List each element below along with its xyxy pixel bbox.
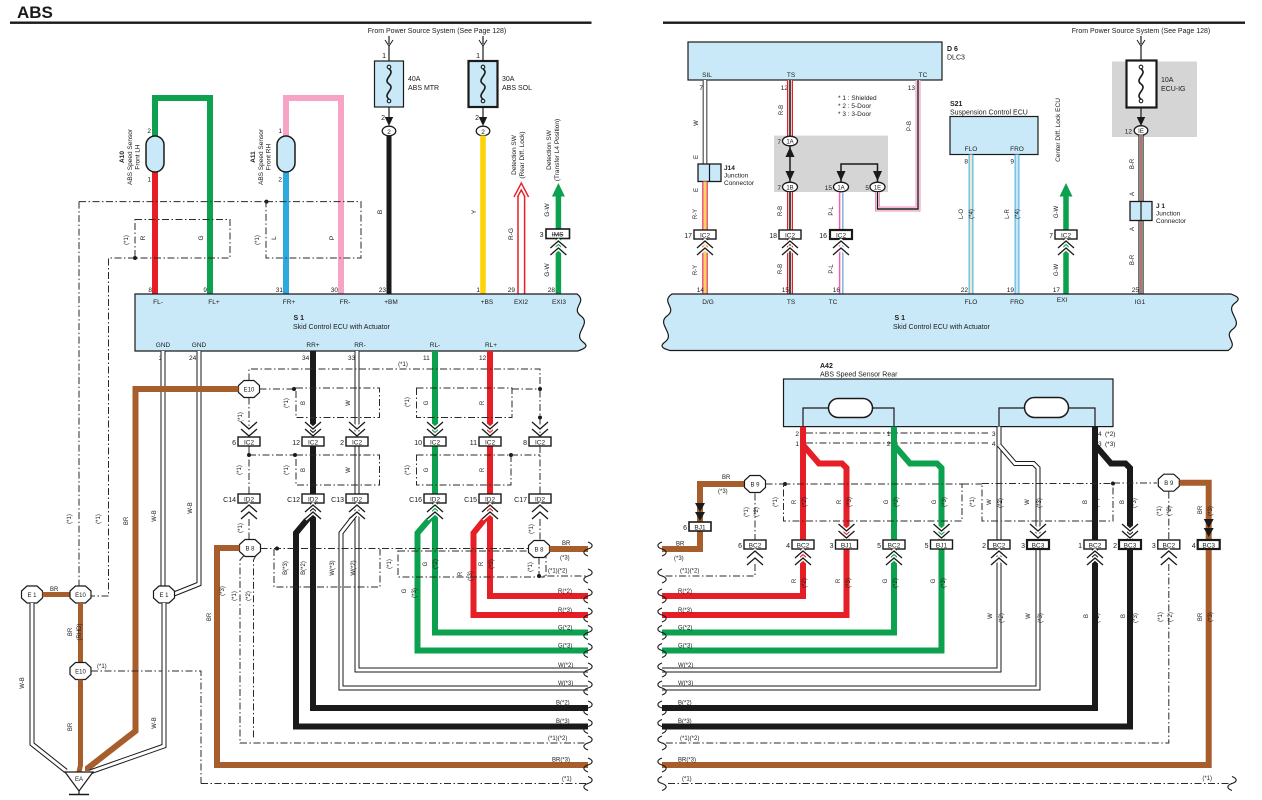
svg-text:G-W: G-W	[1054, 263, 1060, 276]
svg-text:8: 8	[964, 159, 968, 166]
svg-text:BR(*3): BR(*3)	[678, 758, 696, 764]
connector circle IE	[1125, 126, 1148, 136]
svg-text:B: B	[301, 401, 307, 405]
svg-text:R(*3): R(*3)	[678, 608, 692, 614]
svg-text:IC2: IC2	[535, 440, 546, 447]
svg-text:G(*2): G(*2)	[678, 626, 692, 632]
ECU left terminals bottom	[156, 342, 497, 349]
shield node dot A11	[265, 200, 269, 204]
svg-text:S 1: S 1	[895, 315, 906, 322]
svg-text:(*3): (*3)	[1037, 498, 1043, 508]
svg-text:BC3: BC3	[1124, 543, 1137, 550]
svg-text:BR: BR	[1198, 505, 1204, 514]
sensor A42 right element body	[1025, 398, 1069, 418]
svg-text:1E: 1E	[874, 186, 881, 192]
connector row BC2/BJ1/BC3	[738, 540, 766, 550]
detection SW EXI2 arrow R-G	[514, 183, 529, 295]
sensor A11 body	[277, 136, 295, 172]
svg-text:ABS Speed Sensor Rear: ABS Speed Sensor Rear	[820, 372, 898, 379]
svg-text:B: B	[1084, 614, 1090, 618]
svg-text:7: 7	[777, 139, 781, 146]
svg-text:(*1): (*1)	[97, 664, 107, 670]
shield box rear W/B	[982, 484, 1113, 522]
svg-text:(*3): (*3)	[846, 578, 852, 588]
shield box row1 G/R	[417, 388, 513, 418]
svg-text:TC: TC	[919, 72, 928, 79]
svg-text:R: R	[480, 467, 486, 472]
svg-text:(*3): (*3)	[220, 586, 226, 596]
svg-text:From Power Source System (See: From Power Source System (See Page 128)	[1072, 28, 1211, 35]
svg-text:(*1)(*2): (*1)(*2)	[680, 736, 699, 742]
svg-text:4: 4	[1192, 543, 1196, 550]
svg-text:IC2: IC2	[308, 440, 319, 447]
connector row ID2	[223, 494, 260, 504]
wire RL- branch to G(*3)	[418, 515, 589, 651]
chevrons below IMS	[550, 241, 566, 255]
fuse SOL lower lead + pin 2	[475, 107, 487, 126]
svg-text:34: 34	[302, 355, 310, 362]
svg-text:Front LH: Front LH	[135, 144, 142, 170]
wire TS R-B upper	[787, 80, 793, 137]
svg-text:L: L	[271, 236, 278, 240]
ECU left terminals top	[153, 299, 566, 306]
svg-text:A42: A42	[820, 363, 833, 370]
wire R-Y SIL to ECU	[702, 182, 707, 296]
svg-text:(*1)(*2): (*1)(*2)	[680, 569, 699, 575]
svg-text:1A: 1A	[786, 140, 793, 146]
wire BR from B8 left	[217, 548, 588, 765]
svg-text:2: 2	[147, 128, 151, 135]
svg-text:B: B	[1120, 500, 1126, 504]
svg-text:W-B: W-B	[20, 677, 26, 689]
svg-text:BJ1: BJ1	[694, 525, 706, 532]
svg-text:G: G	[424, 467, 430, 472]
shield dash pin rows	[806, 432, 988, 434]
svg-text:1A: 1A	[837, 186, 844, 192]
svg-text:(*1): (*1)	[67, 514, 73, 524]
svg-text:E: E	[694, 155, 700, 159]
svg-text:1: 1	[382, 53, 386, 60]
wire rear W to W(*2)	[662, 427, 999, 670]
svg-text:RR-: RR-	[354, 342, 366, 349]
svg-text:ABS Speed Sensor: ABS Speed Sensor	[127, 128, 134, 185]
A42 pin numbers	[795, 431, 1115, 448]
right row labels at page break	[678, 569, 699, 783]
jumper 1A to 1E	[837, 164, 883, 182]
svg-text:Detection SW: Detection SW	[546, 129, 553, 170]
svg-text:R-B: R-B	[779, 105, 785, 115]
svg-text:W: W	[694, 120, 700, 126]
svg-text:R-B: R-B	[778, 264, 784, 274]
svg-text:W(*2): W(*2)	[351, 560, 357, 575]
shield dash 3BC2 to (*1)(*2) row	[662, 564, 1169, 743]
svg-text:(*1): (*1)	[232, 591, 238, 601]
svg-text:(*2): (*2)	[433, 559, 439, 569]
svg-text:(Rear Diff. Lock): (Rear Diff. Lock)	[519, 131, 526, 178]
shield dash below B8 left	[240, 556, 588, 744]
svg-text:B 8: B 8	[245, 547, 255, 553]
svg-text:SIL: SIL	[702, 72, 712, 79]
svg-text:FLO: FLO	[965, 146, 978, 153]
svg-text:(*1): (*1)	[405, 465, 411, 475]
svg-text:IMS: IMS	[552, 232, 564, 239]
svg-text:(*1): (*1)	[284, 398, 290, 408]
shield box row3 B/W	[274, 549, 380, 587]
svg-text:(*1)(*2): (*1)(*2)	[548, 569, 567, 575]
svg-text:B(*3): B(*3)	[556, 719, 570, 725]
svg-text:Front RH: Front RH	[266, 144, 273, 171]
wire BR E10 to EA	[79, 680, 81, 773]
svg-text:ABS: ABS	[17, 3, 53, 22]
svg-text:R: R	[480, 400, 486, 405]
svg-text:(*2): (*2)	[1168, 612, 1174, 622]
svg-text:(*1): (*1)	[682, 777, 692, 783]
shield dash (*1) top run	[249, 369, 540, 437]
svg-text:(*1): (*1)	[124, 235, 130, 245]
wire W-B below E1	[32, 603, 66, 771]
svg-text:R-G: R-G	[508, 228, 515, 240]
svg-text:IG1: IG1	[1135, 299, 1146, 306]
svg-text:W(*3): W(*3)	[678, 681, 693, 687]
svg-text:IC2: IC2	[244, 440, 255, 447]
svg-text:(*1): (*1)	[1202, 776, 1212, 782]
svg-text:25: 25	[1132, 287, 1140, 294]
svg-text:FR+: FR+	[283, 299, 296, 306]
wire FR- pink	[286, 98, 341, 295]
svg-text:6: 6	[232, 440, 236, 447]
title rule left	[10, 22, 592, 24]
svg-text:IC2: IC2	[485, 440, 496, 447]
svg-text:(*2): (*2)	[489, 559, 495, 569]
svg-text:TC: TC	[829, 299, 838, 306]
wire TC P-B	[878, 80, 919, 209]
solid arrows on BR	[695, 503, 705, 521]
node B9 right	[1158, 474, 1179, 491]
svg-text:8: 8	[523, 440, 527, 447]
svg-text:(*2): (*2)	[754, 507, 760, 517]
svg-text:2: 2	[887, 441, 891, 448]
fuse 10A ECU-IG	[1127, 61, 1157, 108]
svg-text:3: 3	[540, 232, 544, 239]
wire RR- white to W(*2)	[357, 351, 588, 670]
connector row IC2	[232, 437, 260, 447]
svg-text:28: 28	[548, 287, 556, 294]
svg-text:B(*3): B(*3)	[678, 719, 692, 725]
svg-text:(*2): (*2)	[893, 578, 899, 588]
svg-text:11: 11	[470, 440, 477, 447]
wire RR+ black to B(*2)	[313, 351, 588, 708]
svg-text:P-L: P-L	[829, 206, 835, 216]
svg-text:4: 4	[1098, 431, 1102, 438]
svg-text:J 1: J 1	[1156, 203, 1165, 210]
svg-text:FRO: FRO	[1010, 299, 1024, 306]
svg-text:R: R	[837, 499, 843, 504]
shield line A11 horizontal	[79, 201, 266, 203]
svg-text:(*1): (*1)	[96, 514, 102, 524]
svg-text:(*3): (*3)	[560, 556, 570, 562]
svg-text:W(*2): W(*2)	[558, 663, 573, 669]
svg-text:G(*2): G(*2)	[558, 626, 572, 632]
svg-text:B 8: B 8	[534, 548, 544, 554]
wire into fuse ABS SOL	[482, 46, 484, 61]
svg-text:W: W	[1026, 613, 1032, 619]
svg-text:BR: BR	[722, 475, 731, 481]
note shielded/5-door/3-door	[838, 95, 877, 118]
svg-text:G: G	[883, 578, 889, 583]
chevrons below ID2 row	[241, 505, 257, 519]
shield dash between boxes	[962, 483, 982, 485]
svg-text:W: W	[987, 499, 993, 505]
wire RR- branch to W(*3)	[341, 515, 588, 688]
svg-text:2: 2	[387, 129, 391, 136]
svg-text:Y: Y	[471, 209, 478, 214]
connector 16 IC2	[819, 230, 852, 240]
ECU left pin numbers top	[148, 287, 555, 294]
fuse 30A ABS SOL	[469, 61, 498, 107]
wire GND pin2 W-B	[161, 351, 166, 586]
svg-text:C16: C16	[409, 497, 422, 504]
svg-text:RL+: RL+	[485, 342, 497, 349]
svg-text:G: G	[424, 400, 430, 405]
svg-text:FL+: FL+	[208, 299, 220, 306]
svg-text:(*3): (*3)	[674, 556, 684, 562]
svg-text:G: G	[932, 499, 938, 504]
connector circle 1E	[865, 182, 885, 192]
svg-text:(*2): (*2)	[999, 613, 1005, 623]
wire RL+ branch to R(*3)	[474, 515, 589, 615]
svg-text:D/G: D/G	[702, 299, 714, 306]
shield box row2 B/W	[296, 455, 380, 485]
svg-text:2: 2	[481, 129, 485, 136]
svg-text:15: 15	[782, 287, 790, 294]
svg-text:40A: 40A	[408, 76, 421, 83]
wire W-B below E1 mid to EA	[90, 603, 164, 772]
wire rear B to B(*3)	[662, 445, 1130, 727]
connector circle 1B	[777, 182, 797, 192]
svg-text:9: 9	[203, 287, 207, 294]
svg-text:33: 33	[348, 355, 356, 362]
svg-text:BR: BR	[68, 627, 74, 636]
svg-text:G: G	[423, 561, 429, 566]
wire RL+ red to R(*2)	[490, 351, 588, 596]
svg-text:ECU-IG: ECU-IG	[1161, 86, 1186, 93]
wire GND pin24 W-B	[174, 351, 199, 594]
svg-text:TS: TS	[787, 72, 796, 79]
far right hook (*1)	[1228, 777, 1236, 791]
svg-text:D 6: D 6	[947, 46, 958, 53]
svg-text:(*3): (*3)	[1208, 506, 1214, 516]
svg-text:IC2: IC2	[430, 440, 441, 447]
svg-text:Suspension Control ECU: Suspension Control ECU	[950, 110, 1028, 117]
connector circle 1A (second)	[825, 182, 849, 192]
shield node dot A10	[133, 256, 137, 260]
shield box row1 B/W	[296, 388, 380, 418]
svg-text:+BM: +BM	[384, 299, 398, 306]
fuse MTR lower lead + pin 2	[381, 107, 393, 126]
svg-text:2: 2	[982, 543, 986, 550]
svg-text:Junction: Junction	[724, 173, 749, 180]
svg-text:31: 31	[276, 287, 284, 294]
svg-text:B(*2): B(*2)	[678, 701, 692, 707]
svg-text:J14: J14	[724, 165, 735, 172]
svg-text:R-Y: R-Y	[693, 265, 699, 275]
shield dash col8 to B8	[539, 519, 541, 541]
fuse ECU-IG lower lead	[1137, 108, 1145, 127]
wire BR from E10 down left side	[88, 389, 239, 771]
svg-text:(*3): (*3)	[942, 497, 948, 507]
svg-text:29: 29	[508, 287, 516, 294]
svg-text:19: 19	[1007, 287, 1015, 294]
svg-text:B 9: B 9	[750, 483, 760, 489]
svg-text:(*1): (*1)	[238, 523, 244, 533]
svg-text:S21: S21	[950, 101, 963, 108]
svg-text:(*1): (*1)	[1157, 506, 1163, 516]
svg-text:C15: C15	[464, 497, 477, 504]
wire BR B9 to BJ1 to edge	[662, 484, 745, 549]
svg-text:(*3): (*3)	[1038, 613, 1044, 623]
shield dash E10 to wire boxes	[260, 388, 297, 390]
svg-text:G: G	[931, 578, 937, 583]
svg-text:(*1): (*1)	[237, 465, 243, 475]
junction connector J1	[1130, 202, 1152, 221]
svg-text:2: 2	[475, 115, 479, 122]
svg-text:(*1): (*1)	[562, 777, 572, 783]
wire B-R to IG1	[1138, 135, 1143, 295]
shield dash below B9 left	[754, 494, 756, 541]
svg-text:10A: 10A	[1161, 77, 1174, 84]
gray shade box DLC3 links	[774, 136, 888, 192]
svg-text:R: R	[836, 578, 842, 583]
svg-text:R-Y: R-Y	[693, 209, 699, 219]
svg-text:E 1: E 1	[27, 593, 37, 599]
svg-text:3: 3	[1021, 543, 1025, 550]
svg-text:(*1): (*1)	[284, 465, 290, 475]
svg-text:ABS MTR: ABS MTR	[408, 85, 439, 92]
svg-text:1: 1	[887, 431, 891, 438]
svg-text:4: 4	[992, 441, 996, 448]
svg-text:DLC3: DLC3	[947, 55, 965, 62]
svg-text:(*3): (*3)	[1132, 498, 1138, 508]
svg-text:R(*2): R(*2)	[558, 589, 572, 595]
svg-text:S 1: S 1	[294, 315, 305, 322]
svg-text:BJ1: BJ1	[841, 543, 853, 550]
shield dash B9l right side	[766, 483, 784, 485]
svg-text:ABS Speed Sensor: ABS Speed Sensor	[258, 128, 265, 185]
svg-text:B: B	[301, 468, 307, 472]
svg-text:W: W	[346, 467, 352, 473]
svg-text:14: 14	[697, 287, 705, 294]
svg-text:B(*2): B(*2)	[301, 561, 307, 575]
svg-text:(*1): (*1)	[744, 507, 750, 517]
wire rear B to B(*2)	[662, 427, 1095, 708]
svg-text:(*3): (*3)	[941, 578, 947, 588]
wire rear R to R(*3)	[662, 445, 847, 615]
svg-text:BJ1: BJ1	[936, 543, 948, 550]
svg-text:EXI3: EXI3	[552, 299, 566, 306]
svg-text:(*1): (*1)	[529, 524, 535, 534]
svg-text:Connector: Connector	[1156, 218, 1187, 225]
ECU right terminals top	[702, 297, 1145, 306]
connector 6 BJ1	[683, 522, 711, 532]
svg-text:(*3): (*3)	[468, 571, 474, 581]
svg-text:4: 4	[786, 543, 790, 550]
svg-text:BR: BR	[1198, 612, 1204, 621]
svg-text:R: R	[792, 578, 798, 583]
svg-text:24: 24	[189, 355, 197, 362]
svg-text:8: 8	[148, 287, 152, 294]
wire P-L	[840, 192, 843, 295]
shield dash B8 left to B8 right	[261, 548, 529, 550]
svg-text:BR: BR	[676, 542, 685, 548]
svg-text:(*1): (*1)	[773, 497, 779, 507]
wire FRO L-R	[1015, 155, 1020, 296]
wire labels below BC row	[792, 578, 947, 588]
title rule right	[663, 22, 1245, 24]
svg-text:P-L: P-L	[829, 264, 835, 274]
shield dash to B9 right	[1113, 482, 1157, 484]
sensor A42 left element frame	[803, 408, 894, 427]
svg-text:W: W	[988, 613, 994, 619]
shield dash 6BC2 to (*1)(*2) row	[662, 564, 755, 576]
svg-text:(*2): (*2)	[1095, 613, 1101, 623]
node E1 mid	[154, 586, 175, 603]
ground EA	[65, 772, 93, 795]
connector IMS	[540, 229, 570, 239]
connector circle 2 (ABS SOL)	[476, 126, 490, 136]
svg-text:(*2): (*2)	[998, 498, 1004, 508]
svg-text:(*3): (*3)	[847, 497, 853, 507]
svg-text:W(*3): W(*3)	[558, 681, 573, 687]
svg-text:11: 11	[423, 355, 430, 362]
connector 17 IC2	[684, 230, 716, 240]
shield dash bottom (*1) run	[201, 783, 588, 785]
svg-text:W: W	[346, 400, 352, 406]
svg-text:G-W: G-W	[1054, 205, 1060, 218]
svg-text:BR: BR	[562, 541, 571, 547]
power drop arrow right	[1137, 36, 1145, 46]
ECU left pin numbers bottom	[159, 355, 487, 362]
svg-text:EXI: EXI	[1057, 297, 1068, 304]
svg-text:13: 13	[908, 85, 916, 92]
svg-text:12: 12	[1125, 129, 1133, 136]
svg-text:Connector: Connector	[724, 180, 755, 187]
svg-text:(*1)(*2): (*1)(*2)	[548, 736, 567, 742]
svg-text:18: 18	[769, 233, 777, 240]
svg-text:A11: A11	[250, 151, 257, 163]
svg-text:W(*3): W(*3)	[330, 560, 336, 575]
svg-text:(*2): (*2)	[802, 578, 808, 588]
svg-text:22: 22	[961, 287, 969, 294]
chevrons below BC row	[747, 551, 763, 565]
wire RL- green to G(*2)	[435, 351, 588, 633]
connector 18 IC2	[769, 230, 801, 240]
wire 1A to 1B with arrows	[786, 146, 795, 182]
solid arrows on right BR	[1204, 519, 1214, 537]
shield link A10 to ground line	[89, 258, 135, 596]
shield dash E10 down to 6 IC2	[248, 398, 250, 438]
shield box A10	[135, 220, 230, 259]
svg-text:(*1): (*1)	[238, 412, 244, 422]
svg-text:6: 6	[738, 543, 742, 550]
wire rear G to G(*2)	[662, 427, 894, 633]
svg-text:(*2): (*2)	[1094, 498, 1100, 508]
left row labels at page break	[548, 589, 573, 783]
svg-text:BR: BR	[68, 722, 74, 731]
shield box A11	[266, 202, 361, 258]
svg-text:FRO: FRO	[1010, 146, 1024, 153]
page break hooks left half	[584, 542, 592, 791]
svg-text:BR: BR	[50, 587, 59, 593]
